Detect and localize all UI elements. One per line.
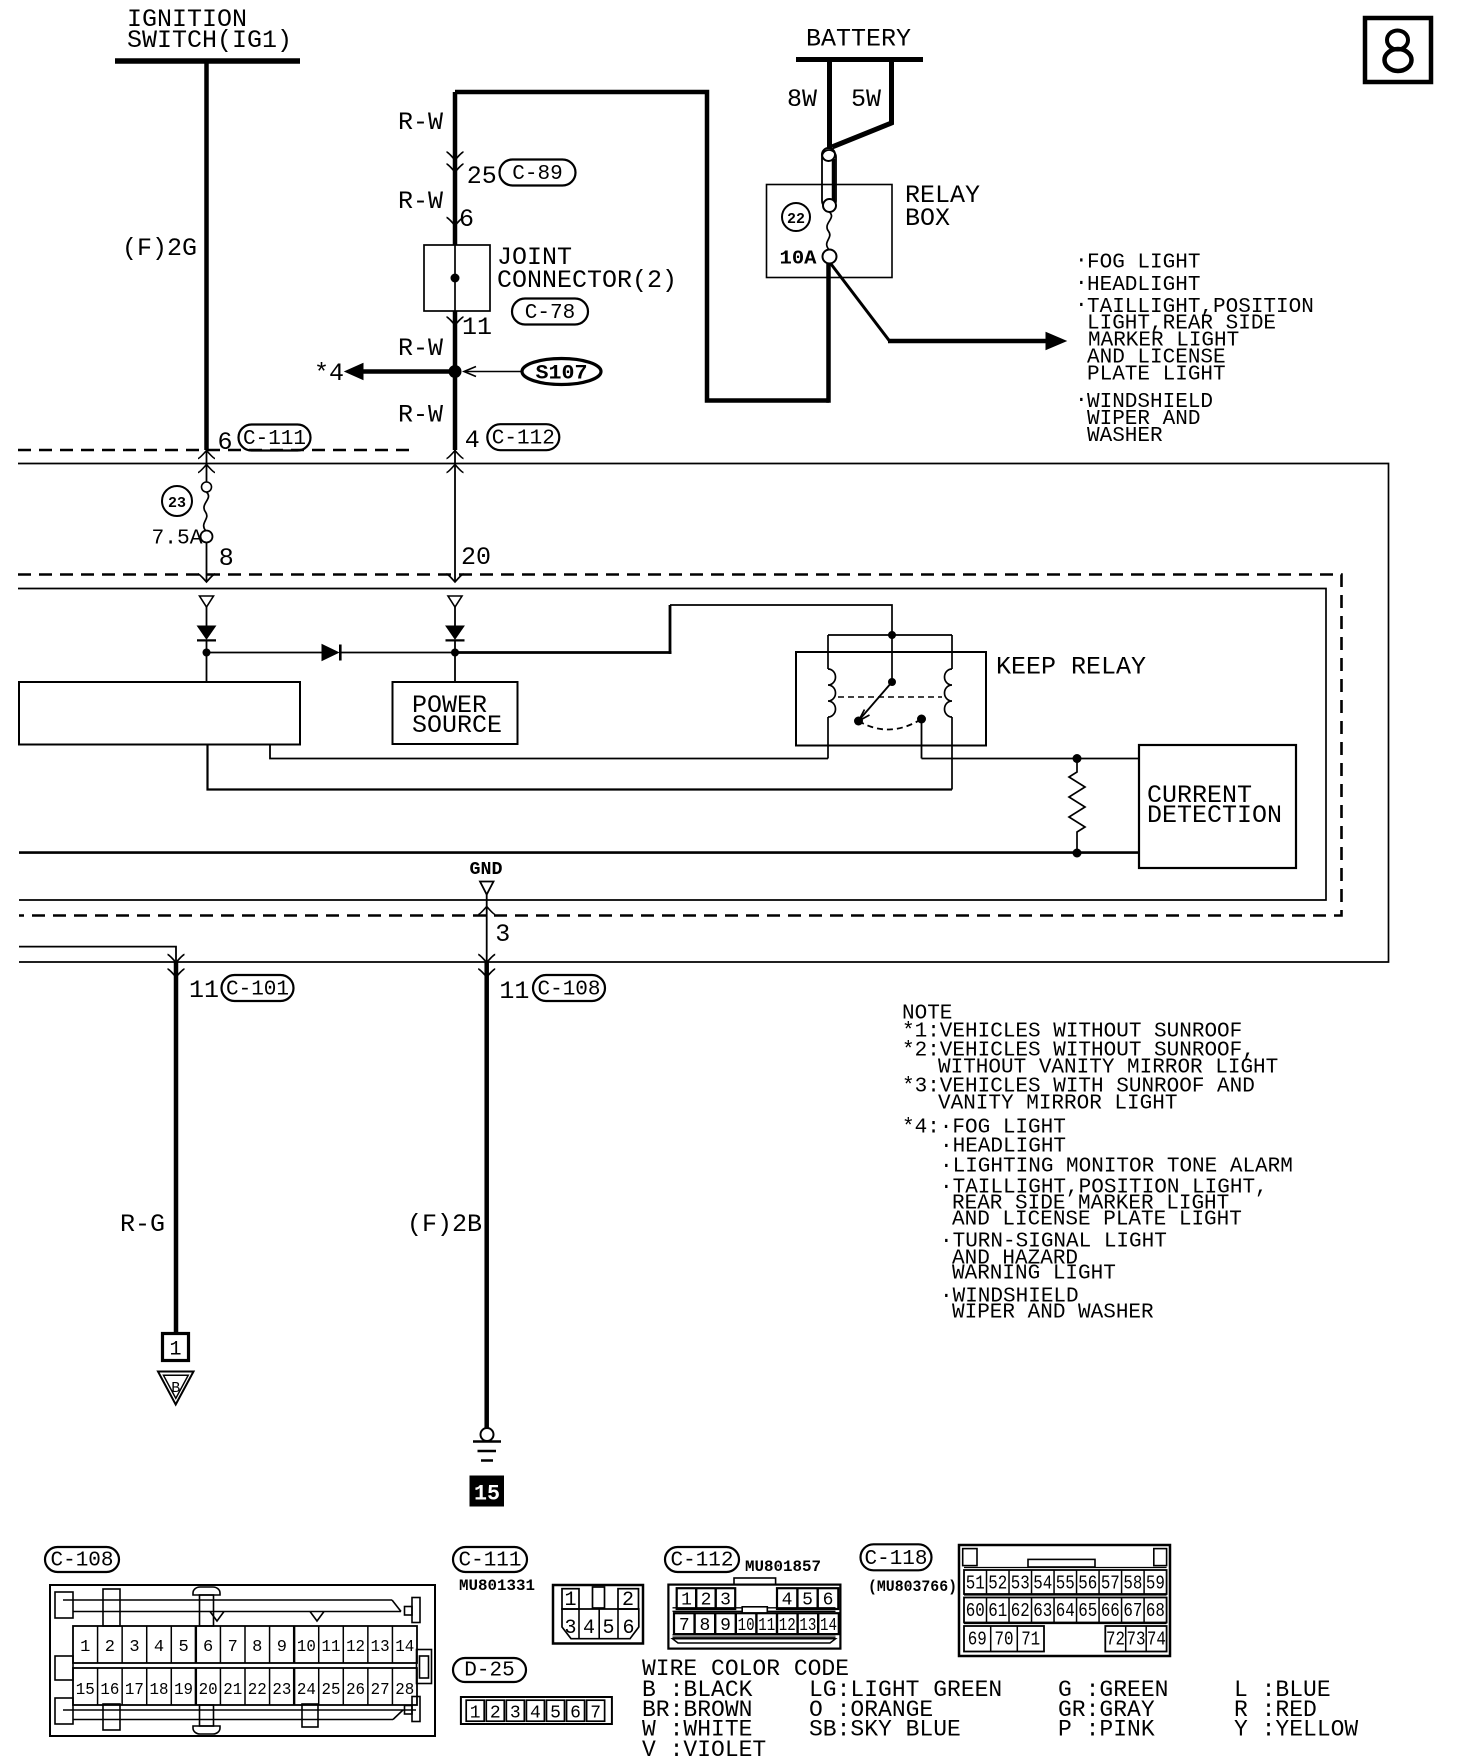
keep relay left coil (827, 635, 829, 669)
joint connector internal wire and junction dot (454, 245, 456, 311)
wire battery 5W leg (832, 60, 892, 148)
svg-text:61: 61 (988, 1600, 1007, 1622)
fusible link capsule (822, 150, 836, 208)
svg-text:57: 57 (1101, 1573, 1120, 1595)
shunt resistor top node dot (1073, 754, 1082, 763)
svg-text:5W: 5W (851, 85, 881, 114)
svg-text:55: 55 (1056, 1573, 1075, 1595)
svg-text:R-W: R-W (398, 334, 443, 363)
svg-text:53: 53 (1011, 1573, 1030, 1595)
svg-text:S107: S107 (536, 363, 588, 386)
ECU logic box (19, 682, 300, 745)
svg-text:6: 6 (570, 1704, 581, 1724)
svg-text:6: 6 (622, 1617, 634, 1640)
keep relay switch travel dashed arc (859, 719, 922, 730)
svg-text:FOG LIGHT: FOG LIGHT (1087, 252, 1200, 275)
svg-text:D-25: D-25 (464, 1660, 514, 1683)
svg-text:5: 5 (178, 1638, 188, 1657)
svg-text:SB:SKY BLUE: SB:SKY BLUE (809, 1717, 961, 1743)
wire pin 6 to fuse 23 (206, 450, 208, 482)
ECU inner solid box (18, 589, 1326, 901)
wire node B to power source box (454, 653, 456, 683)
svg-text:6: 6 (218, 428, 233, 457)
svg-text:(F)2G: (F)2G (122, 234, 197, 263)
wire fixed contact to current detection (922, 758, 1140, 760)
keep relay fixed contact dot (917, 715, 926, 724)
svg-text:12: 12 (779, 1616, 796, 1636)
svg-text:MU801331: MU801331 (459, 1577, 535, 1595)
wire (F)2B ground lead (484, 962, 489, 1428)
svg-text:11: 11 (758, 1616, 775, 1636)
ECU pin 8 triangle (200, 596, 214, 607)
connector D-25 pinout drawing (461, 1697, 612, 1724)
svg-text:11: 11 (189, 976, 219, 1005)
diode D2 (446, 626, 464, 639)
svg-text:8: 8 (252, 1638, 262, 1657)
svg-text:21: 21 (223, 1681, 242, 1700)
keep relay box (796, 652, 986, 746)
svg-text:15: 15 (76, 1681, 95, 1700)
svg-text:C-111: C-111 (458, 1550, 521, 1573)
fuse 10A element squiggle (827, 212, 832, 249)
svg-text:R-W: R-W (398, 108, 443, 137)
wire GND pin down (486, 895, 488, 963)
node A junction dot (203, 649, 211, 657)
svg-text:C-108: C-108 (537, 979, 600, 1002)
svg-text:P :PINK: P :PINK (1058, 1717, 1155, 1743)
svg-text:V :VIOLET: V :VIOLET (642, 1737, 766, 1763)
keep relay switch pivot dot (888, 678, 896, 686)
svg-text:4: 4 (782, 1591, 793, 1611)
svg-text:(MU803766): (MU803766) (868, 1578, 957, 1596)
svg-text:10A: 10A (780, 248, 818, 270)
inner box entry fork pin 20 (447, 574, 464, 582)
svg-text:SOURCE: SOURCE (412, 711, 502, 740)
svg-text:WIPER AND WASHER: WIPER AND WASHER (952, 1302, 1154, 1325)
svg-text:9: 9 (277, 1638, 287, 1657)
svg-text:C-118: C-118 (864, 1548, 927, 1571)
svg-text:3: 3 (129, 1638, 139, 1657)
svg-text:59: 59 (1146, 1573, 1165, 1595)
keep relay coil top bus (828, 634, 952, 636)
svg-text:12: 12 (346, 1638, 365, 1657)
fuse 23 bottom terminal circle (201, 531, 213, 543)
GND pin triangle (480, 882, 494, 895)
svg-text:R-W: R-W (398, 187, 443, 216)
connector C-118 pinout drawing (959, 1545, 1170, 1656)
wire pin 20 to diode D2 (454, 607, 456, 626)
svg-text:4: 4 (465, 426, 480, 455)
wire diode D2 to node B (454, 641, 456, 653)
svg-text:23: 23 (168, 495, 186, 512)
svg-text:71: 71 (1021, 1629, 1040, 1651)
wire node B to keep relay feed corner (455, 651, 672, 654)
svg-text:SWITCH(IG1): SWITCH(IG1) (127, 26, 292, 55)
svg-text:20: 20 (461, 543, 491, 572)
svg-text:11: 11 (499, 977, 529, 1006)
svg-text:74: 74 (1147, 1629, 1166, 1651)
keep relay mechanical link dashed (838, 696, 942, 698)
terminal 1 box (163, 1334, 189, 1361)
svg-text:24: 24 (297, 1681, 316, 1700)
svg-text:1: 1 (564, 1589, 576, 1612)
fusible link terminal circle top (822, 148, 835, 161)
svg-text:·: · (1075, 273, 1088, 296)
svg-text:62: 62 (1011, 1600, 1030, 1622)
svg-text:13: 13 (371, 1638, 390, 1657)
svg-text:·: · (1075, 250, 1088, 273)
connector C-112 pin 4 entry marks (447, 451, 464, 459)
svg-text:66: 66 (1101, 1600, 1120, 1622)
svg-text:15: 15 (474, 1482, 500, 1507)
svg-text:2: 2 (622, 1589, 634, 1612)
svg-text:3: 3 (510, 1704, 521, 1724)
battery bus bar (796, 57, 923, 62)
svg-text:73: 73 (1127, 1629, 1146, 1651)
svg-text:67: 67 (1123, 1600, 1142, 1622)
wire R-G lead (174, 962, 179, 1334)
junction block dashed boundary top (18, 449, 417, 452)
svg-text:68: 68 (1146, 1600, 1165, 1622)
svg-text:8: 8 (699, 1616, 710, 1636)
ground reference triangle B (158, 1372, 194, 1405)
connector C-108 pin grid (73, 1626, 417, 1663)
svg-text:R-W: R-W (398, 401, 443, 430)
svg-text:3: 3 (720, 1591, 731, 1611)
wire tap to lighting loads diagonal (831, 264, 890, 341)
svg-text:AND LICENSE PLATE LIGHT: AND LICENSE PLATE LIGHT (952, 1209, 1242, 1232)
power source box (393, 682, 518, 744)
svg-text:16: 16 (100, 1681, 119, 1700)
splice S107 callout ellipse (522, 359, 601, 385)
svg-text:1: 1 (80, 1638, 90, 1657)
ETACS ECU outer box (18, 464, 1389, 963)
svg-text:72: 72 (1106, 1629, 1125, 1651)
svg-text:C-89: C-89 (512, 163, 562, 186)
svg-text:11: 11 (322, 1638, 341, 1657)
svg-text:25: 25 (322, 1681, 341, 1700)
wire diode D3 to node B (341, 652, 455, 654)
svg-text:*4: *4 (314, 359, 344, 388)
svg-text:4: 4 (154, 1638, 164, 1657)
svg-text:·: · (1075, 295, 1088, 318)
ECU internal ground bus (19, 851, 1139, 854)
svg-text:14: 14 (820, 1616, 837, 1636)
svg-text:MU801857: MU801857 (745, 1558, 821, 1576)
svg-text:C-111: C-111 (243, 428, 306, 451)
wire diode D1 to node A (206, 641, 208, 653)
svg-text:WARNING LIGHT: WARNING LIGHT (952, 1263, 1116, 1286)
svg-text:10: 10 (297, 1638, 316, 1657)
svg-text:10: 10 (738, 1616, 755, 1636)
svg-text:7: 7 (228, 1638, 238, 1657)
shunt resistor R1 (1069, 759, 1085, 854)
svg-text:25: 25 (467, 162, 497, 191)
svg-text:BATTERY: BATTERY (806, 25, 911, 54)
svg-text:20: 20 (199, 1681, 218, 1700)
svg-text:65: 65 (1078, 1600, 1097, 1622)
wire logic box to keep relay right coil (208, 745, 953, 790)
wire node A to diode D3 (207, 652, 323, 654)
svg-text:1: 1 (169, 1339, 181, 1362)
svg-text:C-101: C-101 (226, 979, 289, 1002)
svg-text:7: 7 (590, 1704, 601, 1724)
svg-text:69: 69 (968, 1629, 987, 1651)
svg-text:9: 9 (720, 1616, 731, 1636)
svg-text:17: 17 (125, 1681, 144, 1700)
ECU inner dashed box (18, 575, 1342, 916)
svg-text:DETECTION: DETECTION (1147, 801, 1282, 830)
svg-text:5: 5 (802, 1591, 813, 1611)
svg-text:11: 11 (462, 313, 492, 342)
svg-text:14: 14 (395, 1638, 414, 1657)
svg-text:CONNECTOR(2): CONNECTOR(2) (497, 266, 677, 295)
wire battery 8W leg (827, 60, 832, 150)
svg-text:2: 2 (490, 1704, 501, 1724)
ECU pin 20 triangle (448, 596, 462, 607)
svg-text:1: 1 (470, 1704, 481, 1724)
svg-text:·LIGHTING MONITOR TONE ALARM: ·LIGHTING MONITOR TONE ALARM (940, 1156, 1293, 1179)
connector C-118 label (861, 1544, 932, 1570)
svg-text:C-78: C-78 (525, 302, 575, 325)
connector C-112 pinout drawing (668, 1585, 840, 1649)
connector C-101 pin 11 exit marks (168, 955, 185, 963)
svg-text:R-G: R-G (120, 1210, 165, 1239)
fuse 10A terminal circle (823, 250, 837, 264)
wire battery feed bus to joint connector (455, 92, 829, 401)
svg-text:(F)2B: (F)2B (407, 1210, 482, 1239)
svg-text:22: 22 (248, 1681, 267, 1700)
joint connector (2) box (424, 245, 490, 311)
wire pin 4 to inner box fork (454, 450, 456, 582)
connector C-108 pinout drawing (50, 1585, 435, 1736)
wire node A into logic box (206, 653, 208, 683)
svg-text:5: 5 (602, 1617, 614, 1640)
wire junction to switch pivot (891, 635, 893, 682)
fuse number 22 circle (782, 203, 810, 231)
joint connector pin 11 fork and label (447, 317, 464, 325)
keep relay switch arm end dot (854, 717, 863, 726)
svg-text:2: 2 (701, 1591, 712, 1611)
ignition switch bus bar (115, 58, 300, 64)
svg-text:PLATE LIGHT: PLATE LIGHT (1087, 364, 1226, 387)
svg-text:22: 22 (787, 211, 805, 228)
svg-text:1: 1 (681, 1591, 692, 1611)
svg-text:4: 4 (530, 1704, 541, 1724)
svg-text:63: 63 (1033, 1600, 1052, 1622)
node B junction dot (451, 649, 459, 657)
inner box entry fork pin 8 (198, 574, 215, 582)
svg-text:8: 8 (219, 544, 234, 573)
svg-text:7.5A: 7.5A (152, 528, 203, 551)
svg-text:6: 6 (203, 1638, 213, 1657)
svg-text:VANITY MIRROR LIGHT: VANITY MIRROR LIGHT (938, 1093, 1177, 1116)
connector C-112 label (665, 1547, 739, 1572)
wire battery feed below relay box (826, 264, 831, 403)
wire logic box to keep relay left coil (270, 745, 828, 759)
svg-text:19: 19 (174, 1681, 193, 1700)
svg-text:C-112: C-112 (670, 1550, 733, 1573)
svg-text:WASHER: WASHER (1087, 425, 1163, 448)
page number box 8 (1365, 18, 1431, 82)
svg-text:C-108: C-108 (50, 1550, 113, 1573)
connector C-111 pinout drawing (553, 1585, 643, 1644)
diode D1 (198, 626, 216, 639)
svg-text:18: 18 (150, 1681, 169, 1700)
svg-text:3: 3 (495, 920, 510, 949)
svg-text:B: B (171, 1380, 180, 1397)
wire through fusible link (832, 159, 836, 202)
joint connector pin 6 fork and label (447, 218, 464, 226)
svg-text:GND: GND (470, 860, 503, 880)
connector C-108 label (45, 1547, 119, 1572)
shunt resistor bottom node dot (1073, 849, 1082, 858)
connector C-111 pin 6 entry marks (198, 451, 215, 459)
splice S107 node dot (449, 365, 462, 378)
svg-text:28: 28 (395, 1681, 414, 1700)
GND dashed boundary fork mark (478, 907, 495, 915)
relay box outline (767, 185, 893, 278)
svg-text:56: 56 (1078, 1573, 1097, 1595)
arrow S107 to splice (466, 371, 521, 373)
wire pin 8 to diode D1 (206, 607, 208, 626)
wire fixed contact down (921, 719, 923, 759)
svg-text:58: 58 (1123, 1573, 1142, 1595)
wire branch to *4 loads (363, 369, 449, 374)
inline connector C-89 marks (447, 152, 464, 160)
svg-text:6: 6 (459, 205, 474, 234)
svg-text:6: 6 (823, 1591, 834, 1611)
svg-text:8W: 8W (787, 85, 817, 114)
arrow to fog light loads (888, 339, 1048, 344)
wire R-W segment below joint connector (453, 311, 458, 450)
keep relay right coil (951, 635, 953, 669)
connector C-111 label (453, 1547, 527, 1572)
svg-text:60: 60 (966, 1600, 985, 1622)
wire fuse 23 to inner box fork (206, 543, 208, 583)
svg-text:C-112: C-112 (492, 428, 555, 451)
keep relay feed junction dot (888, 631, 896, 639)
wire ECU to C-101 pin 11 internal (19, 947, 176, 962)
keep relay switch arm (860, 682, 892, 719)
svg-text:70: 70 (995, 1629, 1014, 1651)
wire ignition IG1 to ECU pin 6 (F)2G (204, 61, 209, 450)
svg-text:5: 5 (550, 1704, 561, 1724)
fuse 23 top terminal circle (202, 482, 212, 492)
svg-text:13: 13 (799, 1616, 816, 1636)
svg-text:54: 54 (1033, 1573, 1052, 1595)
svg-text:·: · (1075, 390, 1088, 413)
connector C-108 pin 11 exit marks (478, 955, 495, 963)
wire feed to keep relay coils (670, 605, 892, 635)
svg-text:52: 52 (988, 1573, 1007, 1595)
svg-text:26: 26 (346, 1681, 365, 1700)
svg-text:7: 7 (679, 1616, 690, 1636)
svg-text:KEEP RELAY: KEEP RELAY (996, 653, 1146, 682)
svg-text:64: 64 (1056, 1600, 1075, 1622)
fuse number 23 circle (162, 486, 192, 516)
wire R-W segment above C-89 (453, 92, 458, 245)
svg-text:51: 51 (966, 1573, 985, 1595)
svg-text:4: 4 (583, 1617, 595, 1640)
ground point 15 box (470, 1476, 504, 1506)
svg-text:2: 2 (105, 1638, 115, 1657)
svg-text:3: 3 (564, 1617, 576, 1640)
chassis ground symbol (481, 1428, 494, 1441)
svg-text:HEADLIGHT: HEADLIGHT (1087, 274, 1200, 297)
svg-text:27: 27 (371, 1681, 390, 1700)
svg-text:BOX: BOX (905, 204, 950, 233)
connector D-25 label (453, 1658, 526, 1682)
fusible link terminal circle bottom (823, 199, 836, 212)
svg-text:Y :YELLOW: Y :YELLOW (1234, 1717, 1358, 1743)
svg-text:23: 23 (272, 1681, 291, 1700)
diode D3 (322, 645, 339, 661)
fuse 23 element squiggle (204, 492, 209, 531)
current detection box (1139, 745, 1296, 868)
